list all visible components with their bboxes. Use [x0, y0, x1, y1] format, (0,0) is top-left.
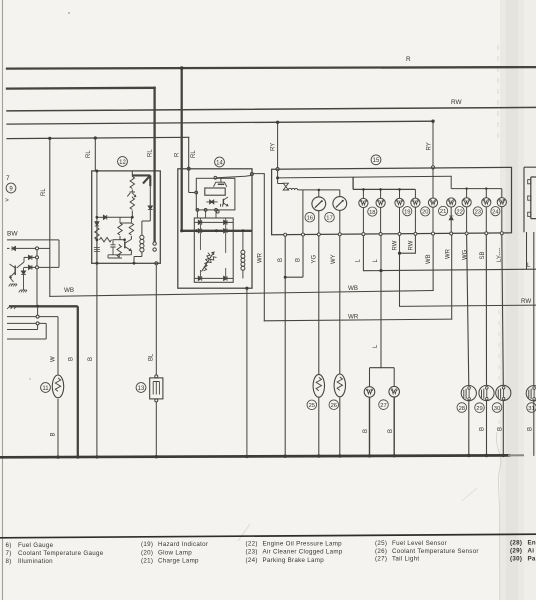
svg-text:24: 24 — [492, 209, 499, 215]
svg-text:YG: YG — [311, 254, 317, 263]
svg-text:Hazard Indicator: Hazard Indicator — [158, 541, 208, 548]
svg-text:LY----: LY---- — [497, 248, 503, 262]
svg-text:WR: WR — [446, 248, 452, 259]
svg-text:20: 20 — [422, 210, 428, 216]
svg-text:Illumination: Illumination — [18, 558, 53, 565]
svg-text:8): 8) — [6, 558, 12, 565]
svg-text:WB: WB — [426, 254, 432, 264]
svg-text:19: 19 — [404, 209, 410, 215]
svg-text:12: 12 — [119, 160, 126, 166]
svg-text:BL: BL — [148, 353, 154, 361]
svg-text:B: B — [497, 427, 503, 431]
svg-text:WR: WR — [258, 252, 264, 263]
svg-text:Air Cleaner Clogged Lamp: Air Cleaner Clogged Lamp — [263, 549, 343, 556]
svg-text:(30): (30) — [510, 556, 522, 563]
svg-text:Glow Lamp: Glow Lamp — [158, 549, 192, 556]
svg-text:(22): (22) — [246, 541, 258, 548]
svg-text:B: B — [278, 258, 284, 262]
svg-text:L: L — [527, 262, 531, 269]
svg-text:(24): (24) — [246, 557, 258, 564]
svg-text:B: B — [69, 357, 75, 361]
svg-text:26: 26 — [331, 403, 337, 409]
svg-text:WB: WB — [64, 287, 74, 294]
svg-text:(23): (23) — [246, 549, 258, 556]
svg-text:Engine Oil Pressure Lamp: Engine Oil Pressure Lamp — [263, 541, 343, 548]
svg-text:W: W — [51, 356, 57, 362]
svg-text:Ai: Ai — [528, 548, 535, 555]
svg-text:B: B — [51, 432, 57, 436]
svg-text:Pa: Pa — [528, 556, 536, 563]
svg-text:28: 28 — [459, 406, 465, 412]
svg-text:B: B — [388, 429, 394, 433]
svg-text:7): 7) — [6, 550, 12, 557]
svg-text:WY: WY — [331, 254, 337, 264]
svg-text:RW: RW — [392, 240, 398, 250]
svg-text:17: 17 — [326, 216, 332, 222]
svg-text:22: 22 — [456, 209, 462, 215]
svg-text:RL: RL — [191, 150, 197, 158]
svg-text:SB: SB — [480, 251, 486, 259]
svg-text:B: B — [88, 357, 94, 361]
svg-text:(20): (20) — [141, 549, 153, 556]
svg-text:RW: RW — [521, 298, 531, 305]
svg-text:R: R — [406, 56, 411, 63]
svg-text:21: 21 — [440, 209, 446, 215]
svg-text:13: 13 — [138, 386, 145, 392]
svg-text:(26): (26) — [375, 548, 387, 555]
svg-text:Fuel Gauge: Fuel Gauge — [18, 542, 54, 549]
svg-text:Parking Brake Lamp: Parking Brake Lamp — [263, 557, 325, 564]
svg-text:(21): (21) — [141, 557, 153, 564]
svg-text:RY: RY — [427, 142, 433, 150]
svg-text:RL: RL — [86, 150, 92, 158]
svg-text:RY: RY — [271, 143, 277, 151]
svg-text:R: R — [175, 152, 181, 157]
svg-text:14: 14 — [216, 160, 223, 166]
svg-text:Coolant Temperature Sensor: Coolant Temperature Sensor — [392, 548, 479, 555]
svg-text:18: 18 — [369, 210, 375, 216]
svg-text:Fuel Level Sensor: Fuel Level Sensor — [392, 540, 447, 547]
svg-text:B: B — [363, 429, 369, 433]
svg-text:11: 11 — [42, 386, 49, 392]
svg-text:Charge Lamp: Charge Lamp — [158, 557, 199, 564]
svg-text:7: 7 — [6, 175, 10, 182]
svg-text:B: B — [527, 427, 533, 431]
svg-text:(25): (25) — [375, 540, 387, 547]
svg-text:25: 25 — [309, 403, 315, 409]
svg-text:6): 6) — [6, 542, 12, 549]
svg-text:(27): (27) — [375, 556, 387, 563]
svg-text:>: > — [5, 197, 9, 204]
svg-text:27: 27 — [380, 403, 386, 409]
svg-text:RL: RL — [148, 149, 154, 157]
svg-text:En: En — [528, 539, 536, 546]
svg-text:(29): (29) — [510, 548, 522, 555]
svg-text:31: 31 — [528, 406, 534, 412]
svg-text:WB: WB — [348, 285, 358, 292]
svg-text:23: 23 — [475, 210, 481, 216]
svg-text:Tail Light: Tail Light — [392, 556, 419, 563]
svg-text:RL: RL — [41, 188, 47, 196]
svg-text:RW: RW — [451, 99, 462, 106]
svg-text:B: B — [480, 427, 486, 431]
svg-text:WR: WR — [348, 314, 359, 321]
svg-text:BW: BW — [7, 231, 18, 238]
svg-text:(19): (19) — [141, 541, 153, 548]
svg-text:WG: WG — [463, 249, 469, 260]
svg-text:16: 16 — [307, 216, 313, 222]
svg-text:RW: RW — [409, 240, 415, 250]
svg-text:15: 15 — [373, 158, 380, 164]
svg-text:30: 30 — [494, 406, 500, 412]
svg-text:Coolant Temperature Gauge: Coolant Temperature Gauge — [18, 550, 104, 557]
svg-text:29: 29 — [476, 406, 482, 412]
svg-text:B: B — [295, 258, 301, 262]
svg-text:(28): (28) — [510, 539, 522, 546]
